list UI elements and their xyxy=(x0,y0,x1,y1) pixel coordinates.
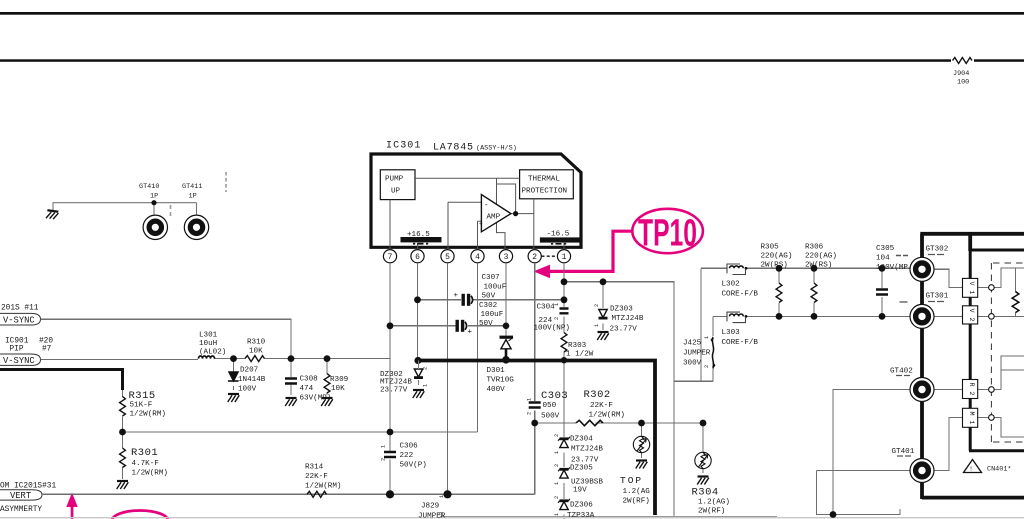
svg-text:220(AG): 220(AG) xyxy=(805,253,837,261)
svg-text:2: 2 xyxy=(423,367,429,370)
svg-text:R302: R302 xyxy=(584,389,611,401)
svg-text:IC901: IC901 xyxy=(5,338,29,346)
svg-text:63V(MP): 63V(MP) xyxy=(300,395,332,403)
svg-text:50V: 50V xyxy=(482,293,496,301)
svg-text:4.7K-F: 4.7K-F xyxy=(132,460,160,468)
svg-text:R305: R305 xyxy=(761,244,780,252)
svg-text:R304: R304 xyxy=(692,487,719,499)
svg-text:1/2W(RM): 1/2W(RM) xyxy=(130,411,166,419)
svg-text:51K-F: 51K-F xyxy=(130,402,153,410)
svg-text:-: - xyxy=(484,202,489,210)
svg-text:DZ306: DZ306 xyxy=(570,502,593,510)
svg-text:UP: UP xyxy=(391,188,401,196)
svg-text:GT410: GT410 xyxy=(139,183,159,191)
svg-text:J904: J904 xyxy=(953,70,969,78)
svg-text:TOP: TOP xyxy=(620,475,643,486)
svg-text:10K: 10K xyxy=(331,385,345,393)
svg-text:C302: C302 xyxy=(479,302,498,310)
svg-text:DZ305: DZ305 xyxy=(570,465,593,473)
svg-text:L302: L302 xyxy=(722,281,741,289)
svg-text:22K-F: 22K-F xyxy=(305,473,328,481)
svg-text:PROTECTION: PROTECTION xyxy=(522,188,568,196)
svg-text:1 1/2W: 1 1/2W xyxy=(566,351,594,359)
svg-text:6: 6 xyxy=(415,253,420,262)
svg-text:UZ39BSB: UZ39BSB xyxy=(571,479,603,487)
svg-text:MTZJ24B: MTZJ24B xyxy=(380,379,412,387)
svg-text:1P: 1P xyxy=(150,193,158,201)
svg-text:2W(RS): 2W(RS) xyxy=(761,262,788,270)
svg-text:500V: 500V xyxy=(541,413,560,421)
svg-text:+: + xyxy=(479,221,483,228)
svg-text:100uF: 100uF xyxy=(481,311,504,319)
svg-text:D207: D207 xyxy=(240,367,258,375)
svg-text:2: 2 xyxy=(554,496,560,499)
svg-text:5: 5 xyxy=(445,253,450,262)
svg-text:1: 1 xyxy=(381,445,387,448)
svg-text:IC301: IC301 xyxy=(386,141,422,152)
svg-text:1: 1 xyxy=(423,384,429,387)
svg-text:2: 2 xyxy=(554,464,560,467)
svg-text:MTZJ24B: MTZJ24B xyxy=(612,315,644,323)
svg-text:1: 1 xyxy=(554,482,560,485)
svg-text:23.77V: 23.77V xyxy=(610,326,638,334)
svg-text:R314: R314 xyxy=(305,464,324,472)
svg-text:V-SYNC: V-SYNC xyxy=(3,356,35,366)
svg-text:1: 1 xyxy=(439,495,445,498)
svg-text:22K-F: 22K-F xyxy=(590,402,613,410)
svg-text:JUMPER: JUMPER xyxy=(418,513,446,519)
svg-text:201S #11: 201S #11 xyxy=(1,305,39,313)
svg-text:2: 2 xyxy=(532,253,537,262)
svg-text:300V: 300V xyxy=(683,360,702,368)
svg-text:TVR10G: TVR10G xyxy=(487,377,515,385)
svg-text:1.2(AG: 1.2(AG xyxy=(623,488,651,496)
svg-text:TZP33A: TZP33A xyxy=(567,512,595,519)
svg-text:R306: R306 xyxy=(805,244,824,252)
svg-text:JUMPER: JUMPER xyxy=(683,350,711,358)
svg-text:J829: J829 xyxy=(421,503,440,511)
svg-text:1P: 1P xyxy=(189,193,197,201)
svg-text:050: 050 xyxy=(543,402,557,410)
svg-text:L303: L303 xyxy=(722,329,741,337)
svg-text:1.2(AG): 1.2(AG) xyxy=(698,499,730,507)
svg-text:PIP: PIP xyxy=(10,346,24,354)
svg-text:LA7845: LA7845 xyxy=(433,143,474,154)
svg-text:V-SYNC: V-SYNC xyxy=(3,316,35,326)
svg-text:50V: 50V xyxy=(479,320,493,328)
svg-text:474: 474 xyxy=(300,385,314,393)
svg-text:10uH: 10uH xyxy=(199,340,217,348)
svg-text:+: + xyxy=(454,292,459,300)
svg-text:THERMAL: THERMAL xyxy=(528,176,560,184)
svg-text:100V(MP: 100V(MP xyxy=(876,264,908,272)
svg-text:222: 222 xyxy=(400,452,414,460)
svg-text:100V: 100V xyxy=(238,386,257,394)
svg-text:1/2W(RM): 1/2W(RM) xyxy=(132,470,168,478)
svg-text:GT302: GT302 xyxy=(926,246,949,254)
svg-text:100: 100 xyxy=(957,79,969,87)
svg-text:D301: D301 xyxy=(487,367,506,375)
svg-text:GT401: GT401 xyxy=(892,448,915,456)
svg-text:2: 2 xyxy=(527,412,533,415)
svg-text:-16.5: -16.5 xyxy=(547,231,570,239)
svg-text:C303: C303 xyxy=(541,390,568,402)
svg-text:(AL02): (AL02) xyxy=(199,349,226,357)
svg-text:104: 104 xyxy=(876,255,890,263)
svg-text:1/2W(RM): 1/2W(RM) xyxy=(589,412,625,420)
svg-text:1: 1 xyxy=(704,336,710,339)
svg-text:C308: C308 xyxy=(300,376,319,384)
svg-text:(ASSY-H/S): (ASSY-H/S) xyxy=(476,145,517,153)
svg-text:2: 2 xyxy=(554,434,560,437)
svg-text:23.77V: 23.77V xyxy=(571,457,599,465)
svg-text:AMP: AMP xyxy=(487,214,501,222)
svg-text:GT301: GT301 xyxy=(926,293,949,301)
svg-text:2: 2 xyxy=(381,458,387,461)
svg-text:1: 1 xyxy=(527,398,533,401)
svg-text:#20: #20 xyxy=(39,338,53,346)
svg-text:DZ303: DZ303 xyxy=(610,306,633,314)
svg-text:3: 3 xyxy=(504,253,509,262)
svg-text:R301: R301 xyxy=(131,447,158,459)
svg-text:GT411: GT411 xyxy=(182,183,202,191)
svg-text:100V(NP): 100V(NP) xyxy=(534,325,570,333)
svg-text:220(AG): 220(AG) xyxy=(761,253,793,261)
svg-text:2: 2 xyxy=(704,365,710,368)
svg-text:2W(RS): 2W(RS) xyxy=(805,262,832,270)
svg-text:100uF: 100uF xyxy=(484,283,507,291)
svg-text:2: 2 xyxy=(554,317,560,320)
svg-text:1: 1 xyxy=(594,324,600,327)
svg-text:DZ304: DZ304 xyxy=(570,436,593,444)
svg-text:C305: C305 xyxy=(876,245,895,253)
svg-text:19V: 19V xyxy=(573,487,587,495)
svg-text:7: 7 xyxy=(388,253,393,262)
svg-text:R309: R309 xyxy=(330,376,349,384)
svg-text:CN401*: CN401* xyxy=(987,466,1011,474)
svg-text:1: 1 xyxy=(554,513,560,516)
svg-text:2W(RF): 2W(RF) xyxy=(698,508,725,516)
svg-text:TP10: TP10 xyxy=(638,213,697,255)
svg-text:PUMP: PUMP xyxy=(385,176,404,184)
svg-text:+: + xyxy=(468,329,473,337)
svg-text:1: 1 xyxy=(562,253,567,262)
svg-text:MTZJ24B: MTZJ24B xyxy=(571,446,603,454)
svg-text:C304: C304 xyxy=(537,304,556,312)
svg-text:4: 4 xyxy=(475,253,480,262)
svg-text:50V(P): 50V(P) xyxy=(400,462,427,470)
svg-text:1: 1 xyxy=(554,451,560,454)
svg-text:R315: R315 xyxy=(129,390,156,402)
svg-text:CORE-F/B: CORE-F/B xyxy=(722,291,759,299)
svg-text:2: 2 xyxy=(594,304,600,307)
svg-text:GT402: GT402 xyxy=(890,368,913,376)
svg-text:400V: 400V xyxy=(487,386,506,394)
svg-text:1: 1 xyxy=(554,303,560,306)
svg-text:23.77V: 23.77V xyxy=(380,387,408,395)
svg-text:C306: C306 xyxy=(400,443,419,451)
svg-text:CORE-F/B: CORE-F/B xyxy=(722,339,759,347)
svg-text:2W(RF): 2W(RF) xyxy=(623,498,650,506)
svg-text:1N414B: 1N414B xyxy=(238,376,266,384)
svg-text:ASYMMERTY: ASYMMERTY xyxy=(0,506,42,514)
svg-text:R310: R310 xyxy=(247,339,266,347)
svg-text:1/2W(RM): 1/2W(RM) xyxy=(305,483,341,491)
svg-text:J425: J425 xyxy=(683,340,702,348)
svg-text:C307: C307 xyxy=(482,274,500,282)
svg-text:L301: L301 xyxy=(199,332,218,340)
svg-text:10K: 10K xyxy=(249,348,263,356)
svg-text:#7: #7 xyxy=(42,346,52,354)
svg-text:!: ! xyxy=(969,466,973,474)
svg-text:R303: R303 xyxy=(568,342,587,350)
svg-text:VERT: VERT xyxy=(10,491,31,501)
